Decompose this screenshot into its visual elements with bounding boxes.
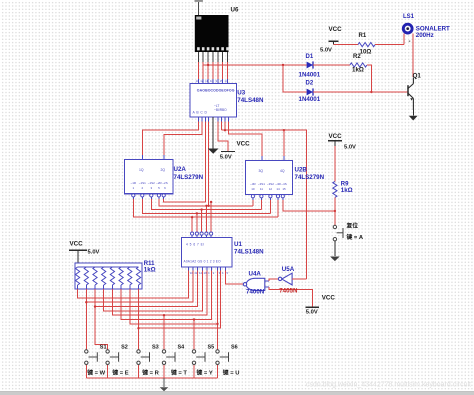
svg-text:OAOBOCODOEOFOG: OAOBOCODOEOFOG [197,89,235,93]
svg-text:5.0V: 5.0V [306,310,318,316]
resistor R1 [358,43,375,47]
wire S6 to common bus [217,365,219,378]
R11 resistor element 2 [84,267,88,285]
wire latch net row 2 right leg [269,200,271,214]
wire latch net row 5 left [164,199,206,202]
wire pullup net 2 [86,271,193,303]
switch S4 top terminal [162,350,165,353]
svg-text:键 = A: 键 = A [346,233,364,241]
R11 resistor element 4 [102,267,106,285]
wire R2 to base node [367,65,371,92]
svg-text:~1R: ~1R [131,181,137,185]
IC U1 74LS148N body [181,237,232,267]
power VCC bar r11 [69,249,87,251]
U2A input labels row [131,181,168,190]
junction S5 feed [193,318,195,320]
svg-text:5.0V: 5.0V [220,154,232,160]
U2B bottom pin bubble [260,195,263,198]
svg-text:7400N: 7400N [246,288,265,295]
wire branch down to U2B pin2 [283,130,285,160]
R11 element 1 lower stub [77,285,79,289]
switch reset top terminal [333,225,336,228]
svg-text:1kΩ: 1kΩ [352,66,364,73]
svg-text:~2S: ~2S [162,181,167,185]
U2B bottom pin bubble [269,195,272,198]
wire pullup net 5 [112,271,206,316]
U3 top pin stub [217,79,219,84]
svg-text:R1: R1 [359,33,367,39]
U1 top pin stub [210,235,212,237]
switch S1 bottom terminal [85,361,88,364]
svg-text:~1S2: ~1S2 [148,181,155,185]
junction latch net row 4 [205,205,207,207]
U4A input stub upper [265,280,269,282]
wire U2B 4S to reset node [283,200,335,211]
net to U5A long run [222,130,307,279]
wire display G to U3 pin [227,62,229,79]
wire bus to ground stem [163,378,165,387]
svg-text:74LS48N: 74LS48N [237,97,264,104]
wire S3 to common bus [138,365,140,378]
wire pullup net 4 [104,271,203,311]
svg-text:键 = E: 键 = E [111,369,128,377]
switch S1 top terminal [85,350,88,353]
wire VCC to U6 CA pin [198,2,200,15]
U2A top pin stub [163,155,165,160]
display pin D lead [212,52,214,62]
wire U3 B to U2A 2S [164,122,202,160]
R11 resistor element 8 [136,267,140,285]
svg-text:11: 11 [194,271,197,275]
R11 resistor element 3 [93,267,97,285]
U2B top pin stub [283,156,285,161]
svg-text:S4: S4 [178,344,186,350]
wire D1 cathode to R2 [313,64,350,66]
R11 element 2 lower stub [85,285,87,289]
svg-text:2Q: 2Q [161,168,166,172]
svg-text:14: 14 [224,79,228,83]
wire S2 to common bus [107,365,109,378]
svg-text:~BI/RBO: ~BI/RBO [214,108,227,112]
U2B bottom pin stub [252,198,254,200]
U1 top pin bubble [210,232,213,235]
svg-text:7405N: 7405N [279,288,298,295]
svg-text:S3: S3 [152,344,159,350]
svg-text:10: 10 [210,79,214,83]
resistor network R11 body [75,263,142,289]
ground below U3 [208,149,219,154]
R11 resistor element 1 [76,267,80,285]
svg-text:VCC: VCC [70,240,84,247]
svg-text:U2A: U2A [174,166,187,173]
U3 top pin numbers [195,79,228,83]
U2B top pin stub [261,156,263,161]
wire emitter to ground [412,110,414,116]
IC U2A 74LS279N body [125,160,174,194]
wire U3 A to U2A 1S [143,122,199,160]
junction base node [370,91,372,93]
U2A bottom pin bubble [150,194,153,197]
svg-text:复位: 复位 [346,221,359,229]
wire LS1 minus to Q1 collector [412,34,414,78]
R11 element 8 lower stub [138,285,140,289]
diode D2 [307,88,313,95]
IC U3 74LS48N body [190,84,237,118]
svg-text:D2: D2 [306,80,314,86]
wire LS1 plus pin [403,34,405,45]
switch S2 bottom terminal [106,361,109,364]
U2A top pin stub [142,155,144,160]
U4A input stub lower [265,286,269,288]
svg-text:15: 15 [220,79,224,83]
U3 bottom pin stub [197,117,199,122]
svg-text:5.0V: 5.0V [320,48,332,54]
switch reset actuator [337,228,343,238]
U2A bottom pin stub [132,197,134,199]
U2B input labels row [250,182,287,191]
wire display F to U3 pin [222,62,224,79]
U1 top pin bubble [200,232,203,235]
svg-text:74LS279N: 74LS279N [295,174,325,181]
junction latch net row 1 [191,216,193,218]
gate U5A 7405N body [278,273,292,285]
resistor R2 [350,63,367,67]
U2B bottom pin bubble [276,195,279,198]
switch S3 bottom terminal [137,361,140,364]
U1 top pin bubble [195,232,198,235]
svg-text:~3S1: ~3S1 [258,182,265,186]
wire latch net row 3 right leg [260,200,262,210]
svg-text:键 = T: 键 = T [170,369,187,377]
wire display B to U3 pin [202,62,204,79]
junction S4 feed [163,314,165,316]
U3 bottom pin stub [221,117,223,122]
wire net2 to switch S1 [85,302,87,349]
power VCC bar mid [221,151,235,153]
wire base red [404,91,408,93]
wire latch net row 3 left [151,199,261,210]
display pin A lead [197,52,199,62]
U3 top pin stub [202,79,204,84]
svg-text:74LS148N: 74LS148N [234,248,264,255]
U2A bottom pin bubble [157,194,160,197]
U3 bottom pin stub [224,117,226,122]
svg-text:键 = W: 键 = W [86,369,105,377]
svg-text:4 5 6 7 EI: 4 5 6 7 EI [186,243,205,247]
wire S5 to common bus [193,365,195,378]
U2A bottom pin bubble [141,194,144,197]
U3 bottom pin stub [217,117,219,122]
svg-text:VCC: VCC [329,26,343,33]
wire pullup net 3 [95,271,198,307]
U2B bottom pin stub [282,198,284,200]
wire latch net row 4 right leg [252,200,254,206]
svg-text:S6: S6 [231,344,238,350]
svg-text:5.0V: 5.0V [88,250,100,256]
wire latch net row 2 left [142,199,270,213]
U3 bottom pin stub [204,117,206,122]
wire VCC to R1 [334,44,358,46]
R11 element 6 lower stub [120,285,122,289]
svg-text:VCC: VCC [329,133,343,140]
switch S3 top terminal [137,350,140,353]
wire U1 EO to U4A [225,271,243,284]
junction S2 feed [94,305,96,307]
wire display A to U3 pin [197,62,199,79]
svg-text:D1: D1 [306,54,314,60]
U3 top pin stub [207,79,209,84]
wire U5A input from net [292,278,306,280]
diode D1 [307,61,313,68]
wire drop to U1 input 1 [191,217,193,232]
U3 GND pin stub [212,117,214,122]
U3 bottom pin stub [208,117,210,122]
wire net8 to switch S3 [138,328,140,349]
junction display wire at segment C [207,64,209,66]
switch S6 bottom terminal [216,361,219,364]
svg-text:~3R: ~3R [250,182,256,186]
svg-text:2: 2 [213,271,215,275]
buzzer LS1 sonalert symbol [403,24,412,33]
wire U3 C down to latch bus [204,122,206,203]
svg-text:~1S1: ~1S1 [139,181,146,185]
power VCC bar r9 [328,140,342,142]
wire U4A lower input to pullup [269,287,312,307]
svg-text:1N4001: 1N4001 [299,96,321,103]
switch S2 actuator [110,352,119,361]
R11 resistor element 7 [128,267,132,285]
U2B bottom pin stub [260,198,262,200]
switch S4 actuator [166,352,175,361]
U2B bottom pin stub [269,198,271,200]
junction U3 D on row 4 [207,205,209,207]
svg-text:74LS279N: 74LS279N [174,174,204,181]
resistor R9 [333,181,337,197]
U2A bottom pin stub [141,197,143,199]
display pin E lead [217,52,219,62]
wire net3 to switch S2 [95,307,108,350]
wire U3 D down to latch bus [208,122,210,206]
svg-text:csdn.blog.weixin_43442778.mult: csdn.blog.weixin_43442778.multisim.keybo… [306,382,471,389]
svg-text:5.0V: 5.0V [344,144,356,150]
U1 bottom pin stub [211,267,213,271]
U1 bottom pin stub [201,267,203,271]
U2A bottom pin stub [150,197,152,199]
wire U3 E to inverter net [221,122,223,131]
junction U3 F on net [224,129,226,131]
svg-text:U2B: U2B [295,166,308,173]
svg-text:S2: S2 [121,344,128,350]
svg-text:4: 4 [222,271,224,275]
svg-text:Q1: Q1 [413,73,422,80]
wire drop to U1 input 2 [196,213,198,231]
U1 bottom pin stub [188,267,190,271]
svg-text:1: 1 [208,271,210,275]
U1 top pin stub [196,235,198,237]
svg-text:10Ω: 10Ω [360,48,372,55]
svg-text:1N4001: 1N4001 [299,71,321,78]
switch S5 top terminal [192,350,195,353]
switch S6 top terminal [216,350,219,353]
wire latch net row 4 left [159,199,253,206]
U2B bottom pin stub [277,198,279,200]
gate U4A 7400N body [243,278,264,290]
wire S1 to common bus [85,365,87,378]
wire branch down to D2 anode [283,65,307,92]
R11 element 7 lower stub [129,285,131,289]
svg-text:1Q: 1Q [139,168,144,172]
ground below Q1 [409,116,418,121]
wire VCC stem r11 [77,250,79,263]
svg-text:A B C D: A B C D [193,111,208,115]
svg-text:11: 11 [205,79,208,83]
U1 bottom pin stub [217,267,219,271]
wire R9 to reset switch [334,197,336,225]
U2B bottom pin bubble [251,195,254,198]
svg-text:13: 13 [195,79,199,83]
U1 bottom pin numbers [190,271,229,275]
wire latch net row 1 left [133,199,278,217]
svg-text:LS1: LS1 [403,14,415,20]
display pin G lead [227,52,229,62]
svg-text:15: 15 [282,187,286,191]
switch reset bottom terminal [333,238,336,241]
wire U3 F join inverter net [224,122,226,131]
junction latch net row 5 [210,201,212,203]
R11 resistor element 6 [119,267,123,285]
seven-segment display U6 body [195,15,229,52]
U1 bottom pin stub [224,267,226,271]
wire pullup net 1 [78,271,189,298]
transistor Q1 symbol [408,78,414,111]
svg-text:11: 11 [260,187,263,191]
R11 resistor element 5 [110,267,114,285]
switch S1 actuator [89,352,98,361]
U1 bottom pin stub [197,267,199,271]
U1 bottom pin stub [192,267,194,271]
wire R1 to LS1 plus [375,44,404,46]
svg-text:S1: S1 [100,344,107,350]
svg-text:VCC: VCC [237,141,251,148]
wire pullup net 8 [139,271,221,329]
U1 bottom pin stub [220,267,222,271]
U3 bottom pin stub [227,117,229,122]
display pin F lead [222,52,224,62]
power VCC rail to display common anode [195,0,203,2]
svg-text:10: 10 [251,187,255,191]
wire pullup net 6 [121,271,211,320]
wire U3 G to U2B pin1 [228,122,262,161]
svg-text:9: 9 [216,79,218,83]
wire drop to U1 input 4 [205,206,207,232]
svg-text:1kΩ: 1kΩ [341,187,353,194]
switch S2 top terminal [106,350,109,353]
U3 top pin stub [222,79,224,84]
switch S5 actuator [196,352,205,361]
IC U2B 74LS279N body [246,161,293,195]
U1 top pin stub [201,235,203,237]
svg-text:U1: U1 [234,241,242,248]
wire drop to U1 input 5 [210,202,212,232]
U3 top pin stub [197,79,199,84]
wire latch net row 5 right leg [204,200,206,202]
junction latch net row 2 [196,212,198,214]
U2A bottom pin bubble [132,194,135,197]
junction node to D2 branch [282,64,284,66]
wire switch common bus [86,377,217,379]
U1 top pin stub [205,235,207,237]
wire reset switch to ground [334,241,336,256]
svg-text:S5: S5 [208,344,215,350]
R11 internal bus [78,266,139,268]
wire S4 to common bus [163,365,165,378]
junction S3 feed [137,327,139,329]
svg-text:-: - [409,39,411,45]
display pin B lead [202,52,204,62]
U2A bottom pin stub [158,197,160,199]
wire VCC stem r9 [334,141,336,146]
svg-text:~4S: ~4S [281,182,286,186]
switch S5 bottom terminal [192,361,195,364]
switch S4 bottom terminal [162,361,165,364]
switch S6 actuator [220,352,229,361]
wire latch net row 1 right leg [277,200,279,217]
U1 top pin stub [191,235,193,237]
U3 bottom pin stub [201,117,203,122]
U3 top pin stub [227,79,229,84]
svg-text:5: 5 [227,271,229,275]
wire D2 cathode to Q1 base [313,91,404,93]
wire segment B node to D1 anode [203,64,306,66]
switch S3 actuator [141,352,150,361]
wire drop to U1 input 3 [201,210,203,232]
svg-text:键 = U: 键 = U [222,369,240,377]
wire VCC stem right [333,41,335,45]
U1 top pin bubble [205,232,208,235]
display segment pin letters A-G [197,47,229,50]
wire U3 GND pin [212,122,214,149]
wire pullup net 7 [130,271,218,324]
svg-text:12: 12 [200,79,204,83]
U1 bottom pin stub [206,267,208,271]
junction S1 feed [85,301,87,303]
wire U3 VCC pin [218,122,228,152]
svg-text:1kΩ: 1kΩ [144,267,156,274]
svg-text:VCC: VCC [322,295,336,302]
svg-text:A0A1A2 GS 0 1 2 3 EO: A0A1A2 GS 0 1 2 3 EO [184,260,222,264]
wire U4A inputs tie [269,279,279,281]
junction reset node [334,210,336,212]
svg-text:200Hz: 200Hz [416,32,434,39]
wire display E to U3 pin [217,62,219,79]
R11 element 5 lower stub [111,285,113,289]
U2A bottom pin stub [163,197,165,199]
wire net5 to switch S4 [163,315,165,349]
junction latch net row 3 [200,208,202,210]
R11 element 3 lower stub [94,285,96,289]
svg-text:12: 12 [269,187,273,191]
U2A bottom pin bubble [162,194,165,197]
U2B bottom pin bubble [281,195,284,198]
svg-text:U4A: U4A [249,270,262,277]
junction branch to U2B S2 [283,129,285,131]
svg-text:U3: U3 [237,89,245,96]
ground reset [330,257,340,262]
junction S6 feed [216,323,218,325]
display CA pin label [196,17,201,20]
U1 top pin bubble [191,232,194,235]
svg-text:~3S2: ~3S2 [267,182,274,186]
